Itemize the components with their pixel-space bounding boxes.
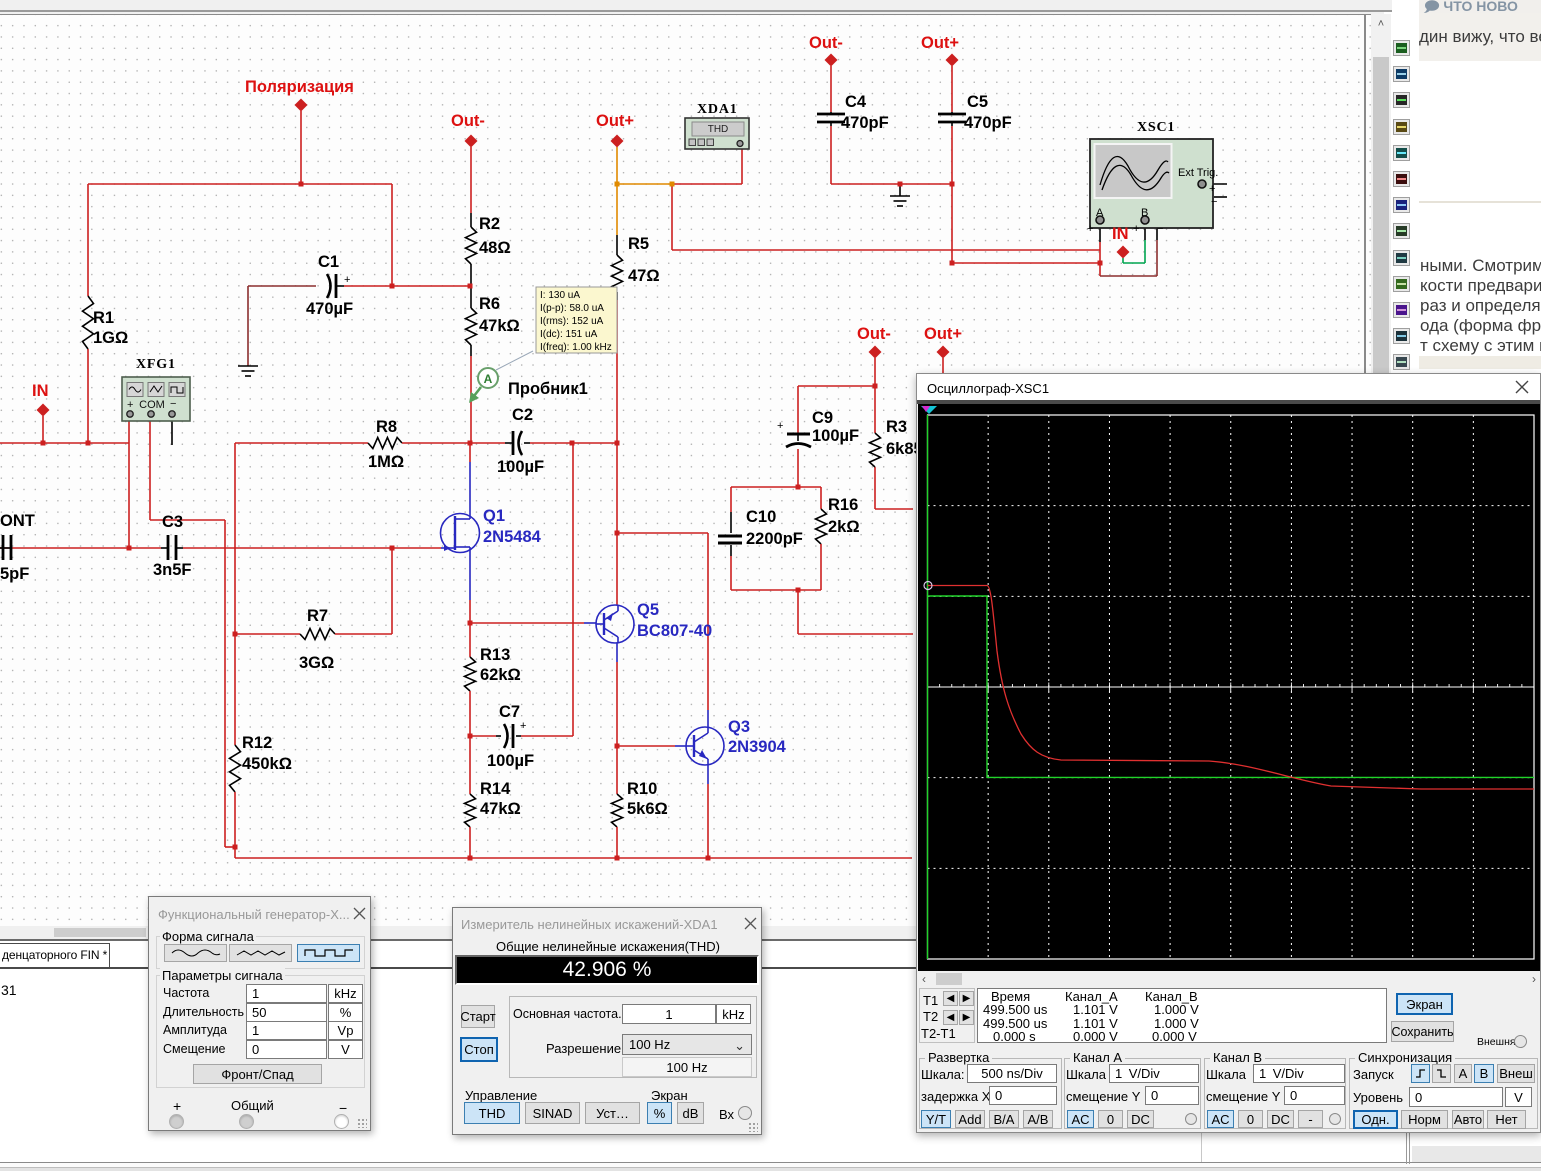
- svg-text:BC807-40: BC807-40: [637, 622, 712, 640]
- svg-text:3n5F: 3n5F: [153, 561, 192, 579]
- svg-text:XFG1: XFG1: [136, 357, 176, 372]
- svg-text:2200pF: 2200pF: [746, 530, 803, 548]
- svg-text:IN: IN: [1112, 225, 1129, 243]
- svg-text:C2: C2: [512, 406, 533, 424]
- svg-text:I: 130 uA: I: 130 uA: [540, 290, 580, 301]
- svg-text:R2: R2: [479, 215, 500, 233]
- svg-text:+: +: [344, 274, 350, 286]
- svg-text:R14: R14: [480, 780, 511, 798]
- svg-text:Out-: Out-: [857, 325, 891, 343]
- svg-text:470pF: 470pF: [964, 114, 1012, 132]
- svg-text:R6: R6: [479, 295, 500, 313]
- svg-text:R12: R12: [242, 734, 272, 752]
- svg-text:R10: R10: [627, 780, 657, 798]
- svg-text:470pF: 470pF: [841, 114, 889, 132]
- svg-text:Пробник1: Пробник1: [508, 380, 588, 398]
- svg-text:2N3904: 2N3904: [728, 738, 787, 756]
- svg-text:IN: IN: [32, 382, 49, 400]
- svg-text:A: A: [484, 372, 493, 386]
- svg-text:+: +: [1087, 223, 1093, 235]
- svg-text:R7: R7: [307, 607, 328, 625]
- svg-text:Ext Trig.: Ext Trig.: [1178, 167, 1218, 179]
- svg-text:R1: R1: [93, 309, 114, 327]
- svg-text:+: +: [127, 399, 133, 411]
- svg-text:Out+: Out+: [596, 112, 634, 130]
- svg-text:+: +: [1133, 223, 1139, 235]
- svg-text:C3: C3: [162, 513, 183, 531]
- svg-text:I(rms): 152 uA: I(rms): 152 uA: [540, 316, 604, 327]
- svg-text:COM: COM: [139, 399, 165, 411]
- svg-text:100µF: 100µF: [497, 458, 544, 476]
- svg-text:Q5: Q5: [637, 601, 659, 619]
- svg-text:100µF: 100µF: [812, 427, 859, 445]
- svg-text:47kΩ: 47kΩ: [479, 317, 520, 335]
- svg-text:Q3: Q3: [728, 718, 750, 736]
- svg-text:R8: R8: [376, 418, 397, 436]
- svg-text:R16: R16: [828, 496, 858, 514]
- svg-text:Out-: Out-: [451, 112, 485, 130]
- svg-text:Out+: Out+: [921, 34, 959, 52]
- svg-text:62kΩ: 62kΩ: [480, 666, 521, 684]
- svg-text:C5: C5: [967, 93, 988, 111]
- svg-text:2N5484: 2N5484: [483, 528, 542, 546]
- svg-text:XDA1: XDA1: [697, 102, 738, 117]
- svg-text:−: −: [1211, 196, 1217, 208]
- svg-text:+: +: [1209, 183, 1215, 195]
- svg-text:I(p-p): 58.0 uA: I(p-p): 58.0 uA: [540, 303, 604, 314]
- svg-text:1MΩ: 1MΩ: [368, 453, 404, 471]
- svg-text:5k6Ω: 5k6Ω: [627, 800, 668, 818]
- svg-text:47Ω: 47Ω: [628, 267, 660, 285]
- svg-text:47kΩ: 47kΩ: [480, 800, 521, 818]
- svg-text:450kΩ: 450kΩ: [242, 755, 292, 773]
- svg-text:2kΩ: 2kΩ: [828, 518, 860, 536]
- svg-text:Out-: Out-: [809, 34, 843, 52]
- svg-text:5pF: 5pF: [0, 565, 29, 583]
- svg-text:3GΩ: 3GΩ: [299, 654, 334, 672]
- svg-text:−: −: [1157, 223, 1163, 235]
- svg-text:ONT: ONT: [0, 512, 35, 530]
- svg-text:C7: C7: [499, 703, 520, 721]
- svg-text:Out+: Out+: [924, 325, 962, 343]
- svg-text:1GΩ: 1GΩ: [93, 329, 128, 347]
- svg-text:+: +: [777, 420, 783, 432]
- svg-text:XSC1: XSC1: [1137, 120, 1175, 135]
- svg-text:C10: C10: [746, 508, 776, 526]
- svg-text:+: +: [520, 720, 526, 732]
- svg-text:C9: C9: [812, 409, 833, 427]
- svg-text:48Ω: 48Ω: [479, 239, 511, 257]
- svg-text:I(dc): 151 uA: I(dc): 151 uA: [540, 329, 598, 340]
- svg-text:Поляризация: Поляризация: [245, 78, 354, 96]
- svg-text:C4: C4: [845, 93, 867, 111]
- svg-text:R5: R5: [628, 235, 649, 253]
- svg-text:R3: R3: [886, 418, 907, 436]
- svg-text:−: −: [170, 398, 176, 410]
- svg-text:470µF: 470µF: [306, 300, 353, 318]
- svg-text:I(freq): 1.00 kHz: I(freq): 1.00 kHz: [540, 342, 612, 353]
- svg-text:R13: R13: [480, 646, 510, 664]
- svg-text:Q1: Q1: [483, 507, 505, 525]
- svg-text:100µF: 100µF: [487, 752, 534, 770]
- svg-text:THD: THD: [708, 124, 729, 135]
- svg-text:C1: C1: [318, 253, 339, 271]
